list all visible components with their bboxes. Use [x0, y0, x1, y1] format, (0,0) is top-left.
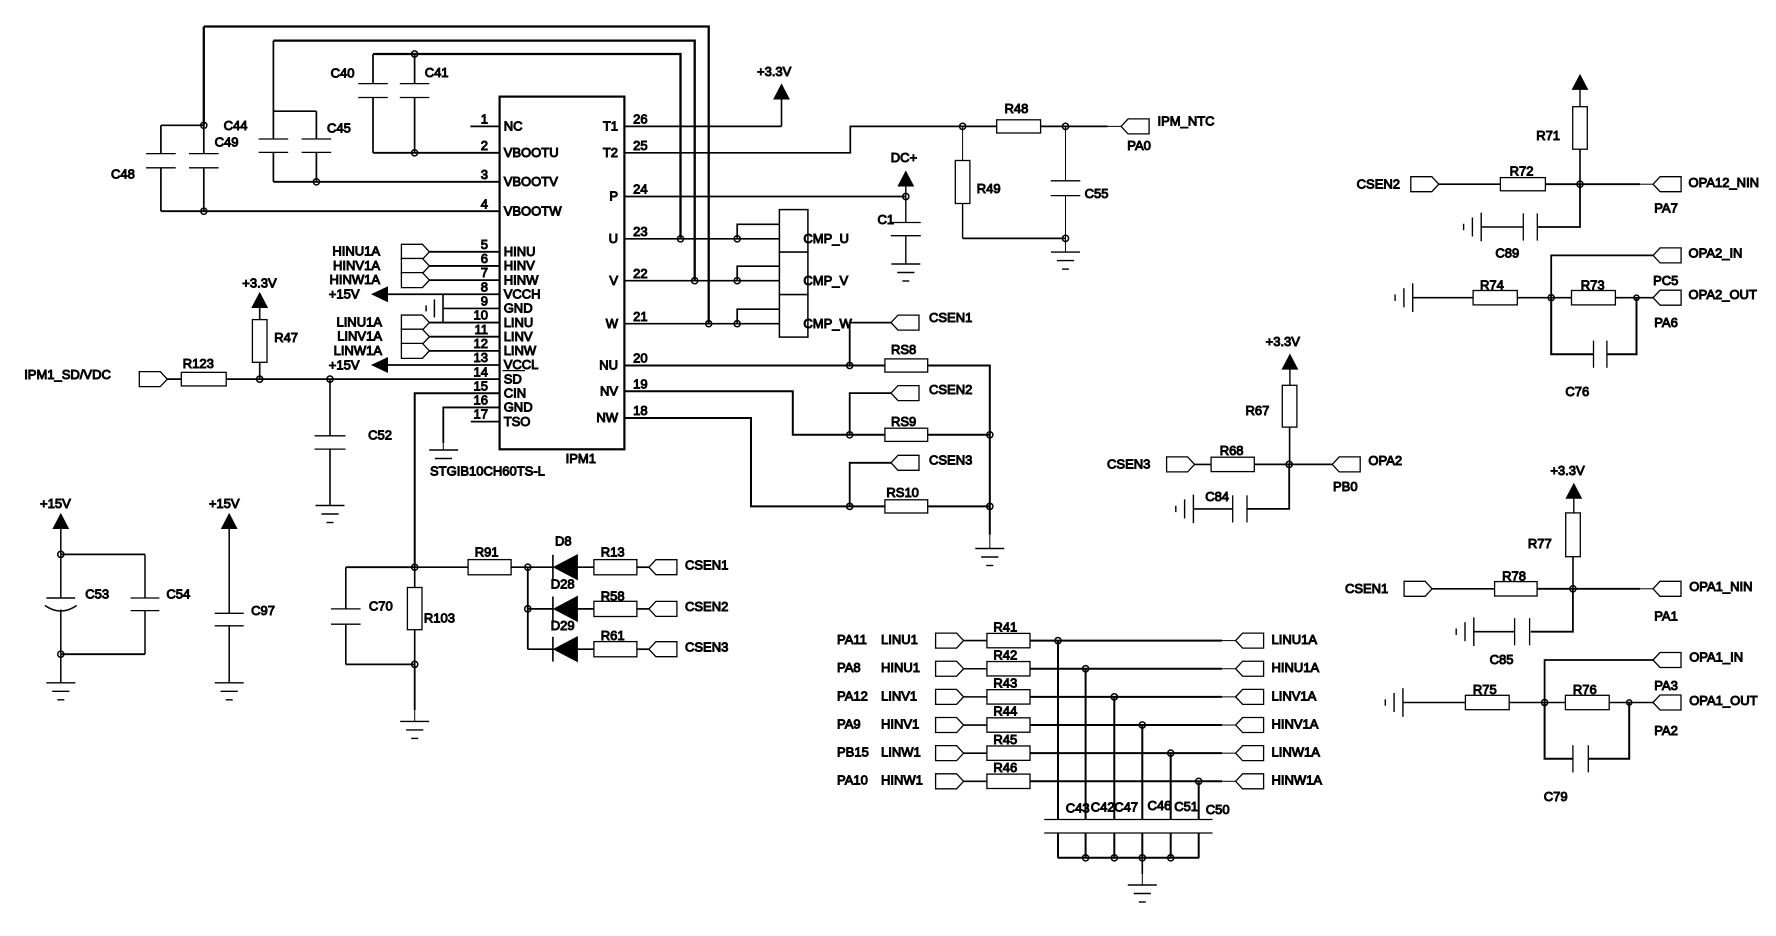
svg-text:C42: C42 — [1091, 800, 1115, 815]
svg-text:CMP_W: CMP_W — [803, 316, 852, 331]
svg-text:PA1: PA1 — [1654, 608, 1678, 623]
svg-text:R72: R72 — [1510, 163, 1534, 178]
svg-text:+3.3V: +3.3V — [757, 64, 792, 79]
svg-text:C41: C41 — [425, 65, 449, 80]
svg-text:C70: C70 — [369, 599, 393, 614]
svg-text:HINV1A: HINV1A — [333, 258, 380, 273]
svg-text:LINV: LINV — [504, 329, 533, 344]
svg-text:25: 25 — [633, 138, 647, 153]
svg-text:PA10: PA10 — [837, 773, 868, 788]
svg-text:CSEN1: CSEN1 — [929, 310, 972, 325]
svg-text:R73: R73 — [1581, 278, 1605, 293]
svg-text:CMP_V: CMP_V — [803, 273, 848, 288]
svg-text:OPA1_NIN: OPA1_NIN — [1689, 579, 1752, 594]
svg-text:PA3: PA3 — [1654, 678, 1678, 693]
svg-text:C48: C48 — [111, 167, 135, 182]
svg-text:LINU1A: LINU1A — [1272, 632, 1318, 647]
svg-text:21: 21 — [633, 309, 647, 324]
svg-text:PB15: PB15 — [837, 745, 869, 760]
svg-text:HINU1: HINU1 — [881, 660, 920, 675]
svg-text:VBOOTV: VBOOTV — [504, 174, 559, 189]
svg-text:RS10: RS10 — [886, 485, 919, 500]
svg-text:LINW1A: LINW1A — [1272, 745, 1321, 760]
svg-text:NW: NW — [596, 410, 618, 425]
svg-text:14: 14 — [474, 364, 488, 379]
svg-text:PA9: PA9 — [837, 716, 861, 731]
svg-text:C97: C97 — [251, 603, 275, 618]
svg-text:RS9: RS9 — [891, 414, 916, 429]
svg-text:GND: GND — [504, 301, 533, 316]
svg-text:23: 23 — [633, 224, 647, 239]
svg-text:C44: C44 — [224, 118, 248, 133]
svg-text:C55: C55 — [1085, 186, 1109, 201]
svg-text:HINU1A: HINU1A — [332, 244, 380, 259]
svg-text:1: 1 — [481, 112, 488, 127]
svg-text:D8: D8 — [555, 533, 572, 548]
svg-text:+15V: +15V — [40, 496, 71, 511]
svg-text:PA12: PA12 — [837, 688, 868, 703]
svg-text:OPA2_OUT: OPA2_OUT — [1689, 287, 1757, 302]
svg-text:10: 10 — [474, 308, 488, 323]
svg-text:C49: C49 — [215, 135, 239, 150]
svg-text:3: 3 — [481, 167, 488, 182]
svg-text:P: P — [609, 189, 618, 204]
svg-text:NU: NU — [599, 358, 618, 373]
svg-text:HINU: HINU — [504, 244, 536, 259]
svg-text:CSEN2: CSEN2 — [685, 599, 728, 614]
svg-text:15: 15 — [474, 378, 488, 393]
svg-text:PA6: PA6 — [1654, 315, 1678, 330]
svg-text:+15V: +15V — [329, 287, 360, 302]
svg-text:T2: T2 — [603, 145, 618, 160]
svg-text:HINV: HINV — [504, 258, 535, 273]
svg-text:U: U — [609, 231, 618, 246]
svg-text:C54: C54 — [166, 586, 190, 601]
svg-text:CSEN1: CSEN1 — [1345, 581, 1388, 596]
svg-text:6: 6 — [481, 251, 488, 266]
svg-text:NV: NV — [600, 384, 618, 399]
svg-text:R123: R123 — [183, 356, 214, 371]
svg-text:HINV1: HINV1 — [881, 716, 919, 731]
svg-text:PC5: PC5 — [1653, 273, 1678, 288]
svg-text:LINW: LINW — [504, 343, 537, 358]
svg-text:PA0: PA0 — [1127, 138, 1151, 153]
svg-text:C1: C1 — [878, 212, 895, 227]
svg-text:20: 20 — [633, 351, 647, 366]
svg-text:CSEN3: CSEN3 — [1107, 457, 1150, 472]
svg-text:OPA2: OPA2 — [1368, 453, 1402, 468]
svg-text:R91: R91 — [475, 545, 499, 560]
svg-text:C85: C85 — [1490, 652, 1514, 667]
svg-text:IPM1: IPM1 — [566, 451, 596, 466]
svg-text:RS8: RS8 — [891, 342, 916, 357]
svg-text:19: 19 — [633, 376, 647, 391]
svg-text:R47: R47 — [274, 330, 298, 345]
svg-text:HINW1A: HINW1A — [329, 272, 380, 287]
svg-text:5: 5 — [481, 237, 488, 252]
svg-text:R77: R77 — [1528, 536, 1552, 551]
svg-text:C89: C89 — [1495, 246, 1519, 261]
svg-text:R61: R61 — [601, 628, 625, 643]
svg-text:C47: C47 — [1114, 800, 1138, 815]
svg-text:R41: R41 — [993, 619, 1017, 634]
svg-text:IPM_NTC: IPM_NTC — [1158, 114, 1215, 129]
svg-text:R76: R76 — [1573, 682, 1597, 697]
svg-text:HINV1A: HINV1A — [1272, 716, 1319, 731]
svg-text:R67: R67 — [1246, 403, 1270, 418]
svg-text:R44: R44 — [993, 704, 1017, 719]
svg-text:24: 24 — [633, 182, 647, 197]
svg-text:D28: D28 — [551, 576, 575, 591]
svg-text:OPA1_OUT: OPA1_OUT — [1689, 693, 1757, 708]
svg-text:R58: R58 — [601, 589, 625, 604]
svg-text:VCCH: VCCH — [504, 286, 541, 301]
svg-text:CMP_U: CMP_U — [803, 231, 849, 246]
svg-text:HINW1A: HINW1A — [1272, 773, 1323, 788]
svg-text:D29: D29 — [551, 618, 575, 633]
svg-text:C43: C43 — [1066, 801, 1090, 816]
svg-text:PA7: PA7 — [1654, 201, 1678, 216]
svg-text:NC: NC — [504, 119, 523, 134]
svg-text:C84: C84 — [1205, 489, 1229, 504]
svg-text:GND: GND — [504, 400, 533, 415]
svg-text:STGIB10CH60TS-L: STGIB10CH60TS-L — [430, 464, 545, 479]
svg-text:C52: C52 — [368, 427, 392, 442]
svg-text:C50: C50 — [1206, 802, 1230, 817]
svg-text:LINV1A: LINV1A — [1272, 688, 1317, 703]
svg-text:VBOOTW: VBOOTW — [504, 203, 563, 218]
svg-text:LINU1: LINU1 — [881, 632, 918, 647]
svg-text:+3.3V: +3.3V — [1266, 334, 1301, 349]
svg-text:R48: R48 — [1005, 101, 1029, 116]
svg-text:OPA2_IN: OPA2_IN — [1689, 246, 1743, 261]
svg-text:VBOOTU: VBOOTU — [504, 145, 559, 160]
svg-text:2: 2 — [481, 138, 488, 153]
svg-text:CSEN2: CSEN2 — [929, 382, 972, 397]
svg-text:+3.3V: +3.3V — [242, 276, 277, 291]
svg-text:OPA12_NIN: OPA12_NIN — [1689, 175, 1760, 190]
svg-text:CSEN3: CSEN3 — [685, 639, 728, 654]
svg-text:LINU1A: LINU1A — [336, 314, 382, 329]
svg-text:R78: R78 — [1502, 569, 1526, 584]
svg-text:C51: C51 — [1174, 799, 1198, 814]
svg-text:18: 18 — [633, 403, 647, 418]
svg-text:C45: C45 — [327, 121, 351, 136]
svg-text:13: 13 — [474, 350, 488, 365]
svg-text:C79: C79 — [1544, 789, 1568, 804]
svg-text:C76: C76 — [1565, 384, 1589, 399]
svg-text:LINU: LINU — [504, 315, 534, 330]
svg-text:R74: R74 — [1480, 278, 1504, 293]
svg-text:R68: R68 — [1220, 443, 1244, 458]
svg-text:7: 7 — [481, 265, 488, 280]
svg-text:V: V — [609, 273, 618, 288]
svg-text:R49: R49 — [977, 181, 1001, 196]
svg-text:R43: R43 — [993, 676, 1017, 691]
svg-text:R46: R46 — [993, 760, 1017, 775]
svg-text:VCCL: VCCL — [504, 357, 539, 372]
svg-text:OPA1_IN: OPA1_IN — [1689, 649, 1743, 664]
svg-text:R71: R71 — [1536, 128, 1560, 143]
svg-text:C40: C40 — [331, 66, 355, 81]
svg-text:+15V: +15V — [329, 357, 360, 372]
svg-text:16: 16 — [474, 393, 488, 408]
svg-text:22: 22 — [633, 266, 647, 281]
svg-text:+15V: +15V — [209, 496, 240, 511]
svg-text:W: W — [606, 316, 619, 331]
svg-text:26: 26 — [633, 112, 647, 127]
svg-text:CSEN2: CSEN2 — [1357, 176, 1400, 191]
svg-text:C53: C53 — [85, 586, 109, 601]
svg-text:DC+: DC+ — [891, 150, 917, 165]
svg-text:T1: T1 — [603, 119, 618, 134]
svg-text:LINW1: LINW1 — [881, 745, 921, 760]
svg-text:PA8: PA8 — [837, 660, 861, 675]
svg-text:TSO: TSO — [504, 414, 531, 429]
svg-text:HINU1A: HINU1A — [1272, 660, 1320, 675]
svg-text:PB0: PB0 — [1333, 479, 1358, 494]
svg-text:R13: R13 — [601, 545, 625, 560]
svg-text:LINV1: LINV1 — [881, 688, 917, 703]
svg-text:R42: R42 — [993, 647, 1017, 662]
svg-text:SD: SD — [504, 371, 522, 386]
svg-text:IPM1_SD/VDC: IPM1_SD/VDC — [24, 367, 111, 382]
svg-text:LINV1A: LINV1A — [337, 329, 382, 344]
svg-text:LINW1A: LINW1A — [334, 343, 383, 358]
svg-text:R103: R103 — [424, 610, 455, 625]
svg-text:4: 4 — [481, 196, 488, 211]
svg-text:HINW: HINW — [504, 272, 539, 287]
svg-text:CSEN3: CSEN3 — [929, 452, 972, 467]
svg-text:12: 12 — [474, 336, 488, 351]
svg-text:HINW1: HINW1 — [881, 773, 923, 788]
svg-text:+3.3V: +3.3V — [1550, 463, 1585, 478]
svg-text:CIN: CIN — [504, 386, 526, 401]
svg-text:PA2: PA2 — [1654, 723, 1678, 738]
svg-text:C46: C46 — [1148, 798, 1172, 813]
svg-text:17: 17 — [474, 407, 488, 422]
svg-text:9: 9 — [481, 294, 488, 309]
svg-text:R45: R45 — [993, 732, 1017, 747]
svg-text:11: 11 — [475, 322, 489, 337]
svg-text:R75: R75 — [1473, 682, 1497, 697]
svg-text:PA11: PA11 — [837, 632, 867, 647]
svg-text:8: 8 — [481, 279, 488, 294]
svg-text:CSEN1: CSEN1 — [685, 557, 728, 572]
